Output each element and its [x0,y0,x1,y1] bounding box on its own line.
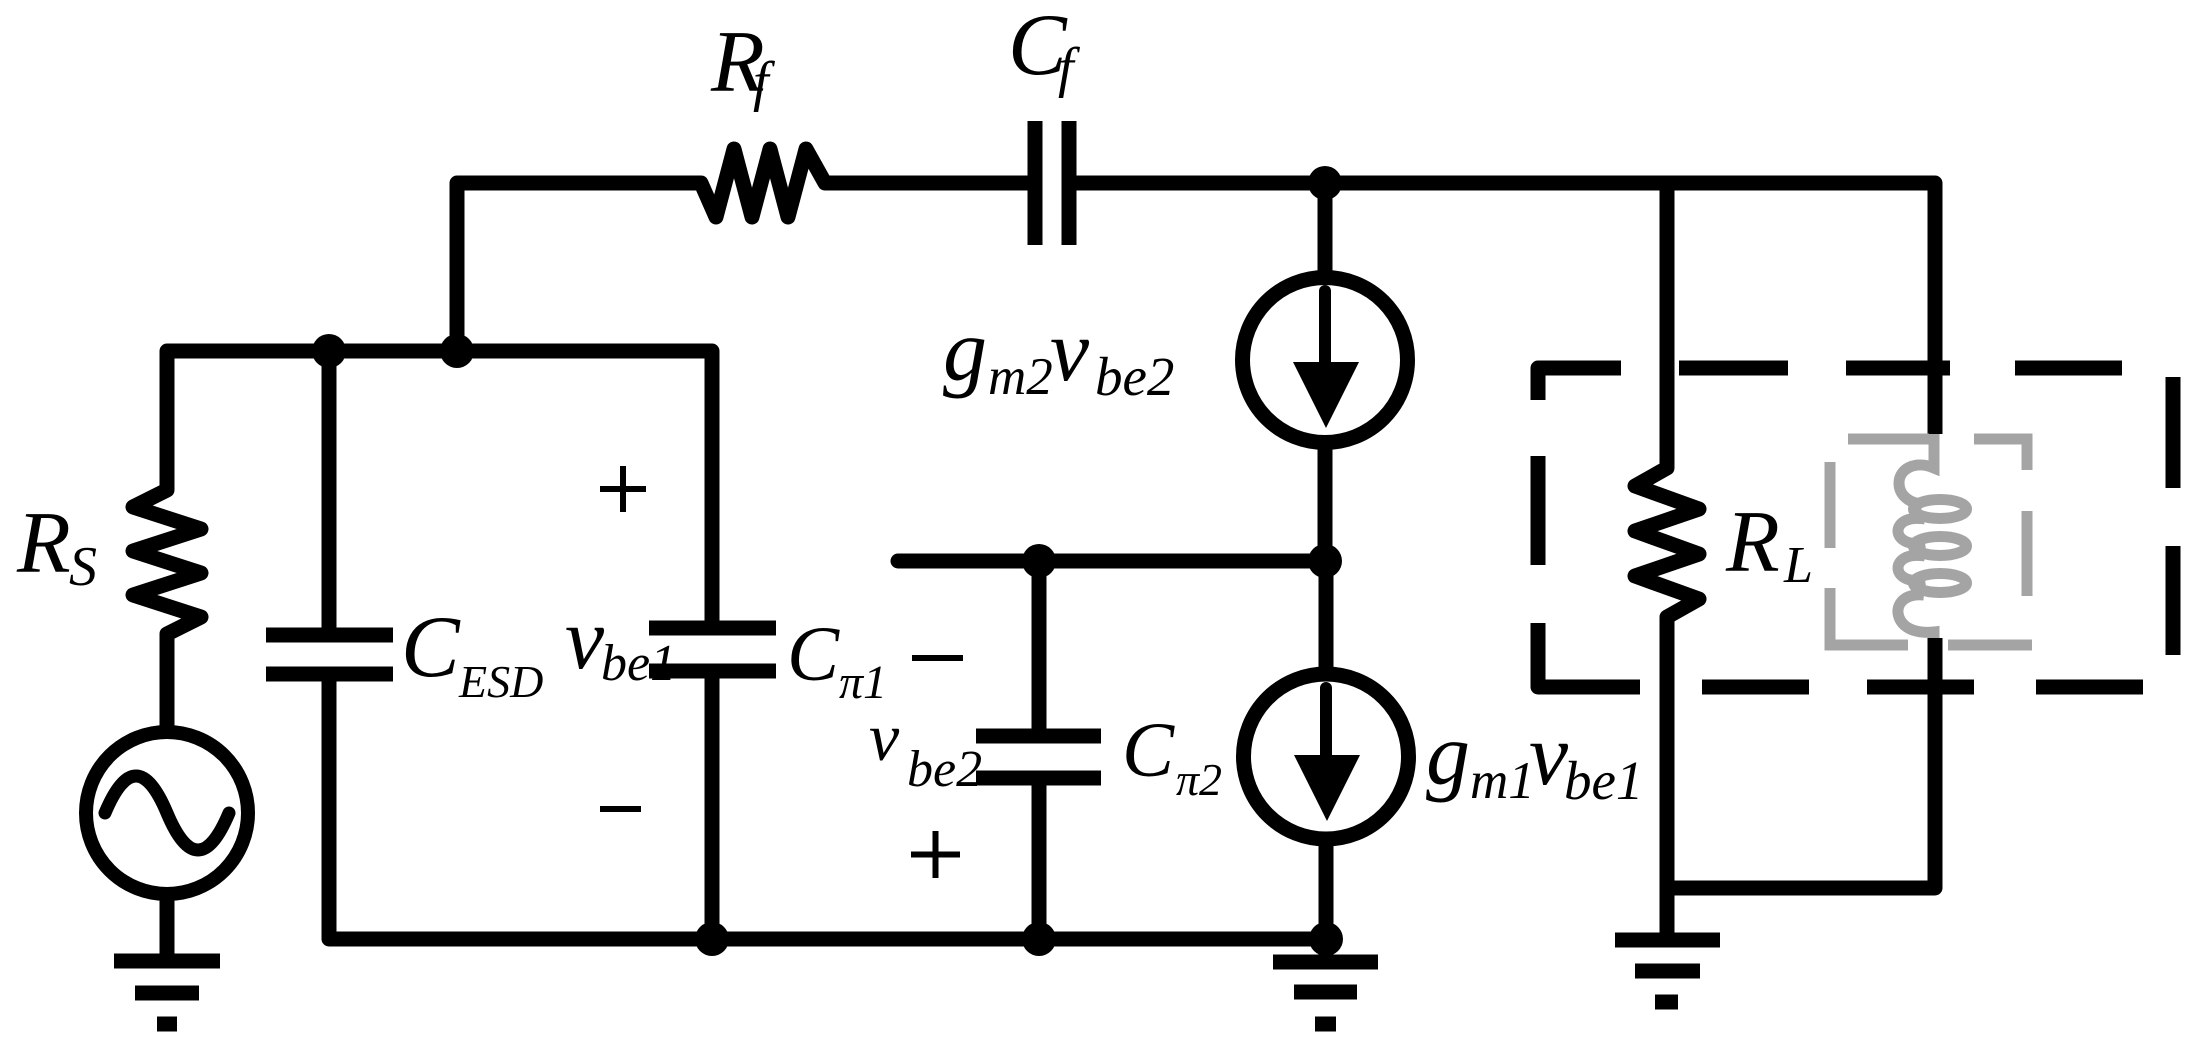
ground G2 (under gm1) [1273,939,1378,1024]
wire: output bottom-right run [1667,638,1935,888]
svg-text:C: C [1122,706,1175,793]
gray dashed box (inductor boundary) [1830,439,2032,645]
svg-text:v: v [1529,707,1569,804]
svg-text:R: R [16,495,71,592]
label vbe1 [565,591,676,692]
label RL [1725,494,1813,594]
AC source Vs [86,732,248,894]
junction dot: output node top [1308,166,1342,200]
svg-text:π1: π1 [839,656,887,709]
svg-text:ESD: ESD [458,656,543,707]
junction dot: middle net right [1308,544,1342,578]
label minus (vbe1 bottom) [600,806,641,812]
label Cpi2 [1122,706,1222,805]
wire: feedback riser and top run with resistor Rf [457,149,1028,351]
capacitor Cpi1 [649,628,776,671]
svg-text:R: R [1725,494,1780,591]
black dashed box (load boundary) [1538,368,2173,687]
junction dot: C_ESD tap [312,334,346,368]
svg-text:g: g [943,303,987,400]
label C_ESD [401,599,543,707]
wire: input net upper-left (source, Rs, top run, Cpi1 drop) [133,351,712,732]
svg-text:m1: m1 [1470,752,1535,810]
wire: Cpi1 lower stub [705,674,720,939]
wire: RL branch with resistor RL [1635,183,1699,888]
label gm2vbe2 [943,303,1174,407]
svg-text:be2: be2 [907,741,982,798]
controlled source gm1vbe1 [1244,561,1409,939]
wire: Cpi1 bottom stub and bottom net [329,677,1326,939]
capacitor C_ESD [266,351,393,674]
label minus (vbe2 top) [912,655,963,661]
junction dot: feedback riser tap [440,334,474,368]
junction dot: bottom net right [1309,922,1343,956]
label gm1vbe1 [1426,707,1643,811]
junction dot: bottom net at Cpi1 [695,922,729,956]
controlled source gm2vbe2 [1243,183,1408,561]
svg-text:v: v [869,699,900,775]
ground G3 (under RL) [1615,888,1720,1002]
svg-text:v: v [565,591,605,688]
svg-text:be1: be1 [1564,750,1643,811]
svg-text:π2: π2 [1176,754,1222,805]
svg-text:S: S [69,536,97,598]
svg-text:m2: m2 [988,348,1053,406]
wire: vbe2 middle net [898,554,1326,569]
junction dot: bottom net at Cpi2 [1022,922,1056,956]
junction dot: Cpi2 tap [1022,544,1056,578]
wire: Cf to output node and right drop [1069,183,1935,434]
label vbe2 [869,699,982,798]
label plus (vbe2 bottom) [911,831,960,878]
svg-text:be2: be2 [1095,346,1174,407]
ground G1 (under source) [114,892,220,1024]
inductor L (gray coil) [1898,434,1967,638]
label Rs [16,495,97,598]
label Cf [1008,0,1081,99]
svg-text:g: g [1426,707,1470,804]
svg-text:v: v [1050,303,1090,400]
label Cpi1 [787,610,887,709]
capacitor Cf [1035,121,1069,245]
svg-text:C: C [787,610,840,697]
capacitor Cpi2 [976,561,1101,939]
svg-text:L: L [1783,537,1813,594]
label Rf [710,14,776,113]
label plus (vbe1 top) [600,466,646,512]
svg-text:C: C [401,599,461,696]
